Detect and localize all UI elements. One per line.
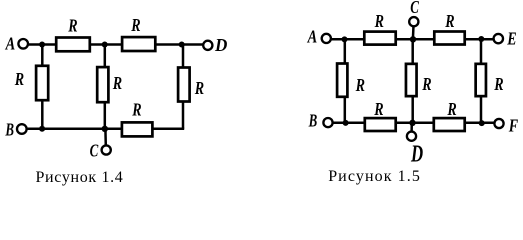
svg-text:C: C <box>90 142 99 162</box>
svg-text:R: R <box>373 101 383 120</box>
svg-text:R: R <box>374 13 384 32</box>
svg-text:R: R <box>14 71 24 90</box>
svg-text:R: R <box>194 80 204 99</box>
svg-text:R: R <box>493 76 503 95</box>
svg-text:A: A <box>5 33 16 54</box>
svg-text:E: E <box>506 30 516 49</box>
svg-text:R: R <box>355 77 365 96</box>
svg-text:D: D <box>410 142 423 167</box>
svg-text:R: R <box>112 75 122 94</box>
svg-text:B: B <box>308 111 317 131</box>
svg-text:R: R <box>67 17 77 36</box>
svg-text:R: R <box>444 13 454 32</box>
svg-text:R: R <box>131 101 141 120</box>
svg-text:R: R <box>421 76 431 95</box>
svg-text:C: C <box>410 0 419 17</box>
svg-text:D: D <box>214 34 228 55</box>
svg-text:R: R <box>447 101 457 120</box>
svg-text:A: A <box>307 26 318 47</box>
svg-text:R: R <box>130 17 140 36</box>
svg-text:B: B <box>5 121 14 141</box>
svg-text:F: F <box>508 117 518 136</box>
